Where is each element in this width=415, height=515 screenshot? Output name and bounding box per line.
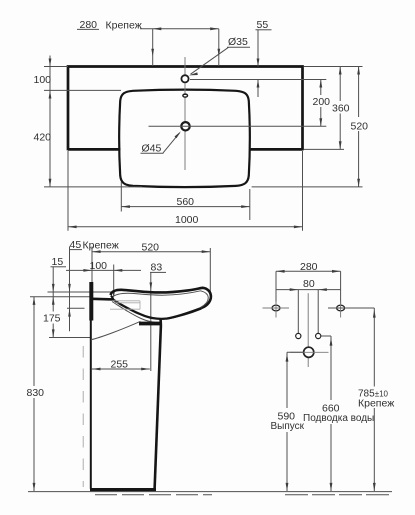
wall mounting oval left: [272, 305, 280, 311]
floor hatch dashes right: [285, 494, 389, 496]
svg-text:55: 55: [257, 19, 269, 31]
counter outline: [68, 67, 303, 151]
basin outline: [119, 90, 250, 188]
rear vertical centerline: [307, 293, 309, 347]
water supply hole right: [316, 333, 321, 338]
dimension 520: [358, 67, 360, 118]
svg-text:830: 830: [27, 387, 45, 399]
svg-text:560: 560: [177, 196, 195, 208]
svg-text:360: 360: [332, 102, 350, 114]
dimension 520 depth: [91, 247, 93, 283]
pedestal bottom: [90, 488, 156, 491]
svg-text:Выпуск: Выпуск: [271, 421, 305, 432]
45 krepezh dimension line: [69, 247, 71, 332]
water supply hole left: [296, 333, 301, 338]
oval centerlines: [263, 307, 290, 309]
bowl concave curve: [113, 299, 201, 318]
tap plate verticals: [297, 290, 299, 334]
dimension 55: [257, 30, 259, 67]
pedestal front edge: [155, 319, 161, 489]
ledge: [92, 297, 113, 300]
pedestal back edge: [90, 321, 92, 489]
drain hole O45: [181, 122, 189, 130]
mounting hole extension right: [218, 29, 220, 66]
dimension 590: [287, 351, 304, 353]
dimension 280 line: [140, 28, 219, 30]
dimension 830: [33, 297, 35, 386]
svg-text:1000: 1000: [175, 214, 199, 226]
back edge bar: [89, 282, 93, 321]
svg-text:255: 255: [111, 358, 129, 370]
svg-text:100: 100: [34, 74, 52, 86]
dimension 100 horizontal: [66, 269, 141, 271]
drain outlet circle: [304, 347, 314, 357]
svg-text:Крепеж: Крепеж: [83, 240, 119, 252]
hidden mounting box: [110, 301, 140, 309]
svg-text:420: 420: [34, 132, 52, 144]
svg-text:Ø35: Ø35: [228, 36, 248, 48]
dimension 560: [120, 182, 122, 212]
drain center extension line: [149, 125, 327, 127]
svg-text:Подводка воды: Подводка воды: [303, 413, 374, 424]
hole extension: [321, 335, 331, 337]
vertical centerline: [184, 57, 186, 170]
dimension 80: [276, 289, 341, 291]
svg-text:83: 83: [151, 262, 163, 274]
svg-text:Крепеж: Крепеж: [106, 20, 142, 32]
drain boss: [139, 322, 161, 326]
under-basin diagonal: [91, 321, 141, 340]
bowl underside lower line: [167, 309, 202, 319]
rim top outline: [111, 288, 211, 308]
left extension lines: [44, 66, 68, 68]
right extension lines: [304, 66, 363, 68]
hidden dashed back line: [82, 346, 84, 487]
floor hatch dashes left: [95, 494, 212, 496]
faucet extension vertical: [113, 265, 115, 296]
dimension 255: [92, 368, 150, 370]
faucet hole O35: [181, 75, 188, 82]
overflow hole: [183, 94, 188, 97]
svg-text:520: 520: [351, 120, 369, 132]
outlet centerline: [290, 351, 329, 353]
dimension 15 / 175 vertical: [52, 267, 54, 312]
floor line: [28, 491, 392, 493]
rim left junction: [111, 296, 114, 300]
svg-text:175: 175: [43, 313, 61, 325]
wall mounting oval right: [337, 305, 345, 311]
dimension 280: [276, 270, 341, 272]
bowl under thin line: [112, 302, 156, 323]
faucet center extension line: [190, 79, 326, 81]
dimension 785: [373, 308, 375, 387]
inner rim line: [112, 291, 208, 307]
dimension 360: [339, 67, 341, 102]
svg-text:Крепеж: Крепеж: [358, 397, 394, 409]
svg-text:200: 200: [313, 96, 331, 108]
dimension 100 / 420 vertical: [49, 56, 51, 187]
mounting hole extension left: [152, 29, 154, 66]
dimension 660: [330, 336, 332, 400]
dimension 200: [320, 80, 322, 96]
extension lines left: [48, 291, 112, 293]
svg-text:15: 15: [52, 256, 64, 268]
centerline 83/255: [150, 273, 152, 371]
svg-text:80: 80: [303, 278, 315, 290]
dimension 1000: [67, 151, 69, 231]
